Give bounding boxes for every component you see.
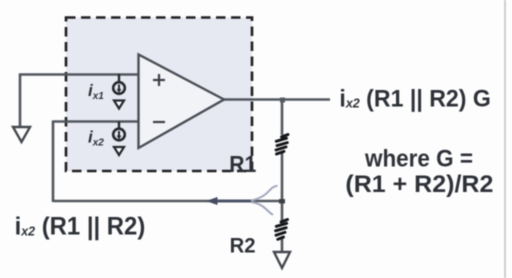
svg-text:ix2 (R1 || R2): ix2 (R1 || R2) xyxy=(15,213,146,241)
svg-text:R1: R1 xyxy=(229,151,256,177)
svg-text:ix2 (R1 || R2) G: ix2 (R1 || R2) G xyxy=(339,85,491,111)
svg-text:R2: R2 xyxy=(230,234,256,258)
svg-text:where G =: where G = xyxy=(364,145,473,172)
svg-text:(R1 + R2)/R2: (R1 + R2)/R2 xyxy=(345,171,493,197)
